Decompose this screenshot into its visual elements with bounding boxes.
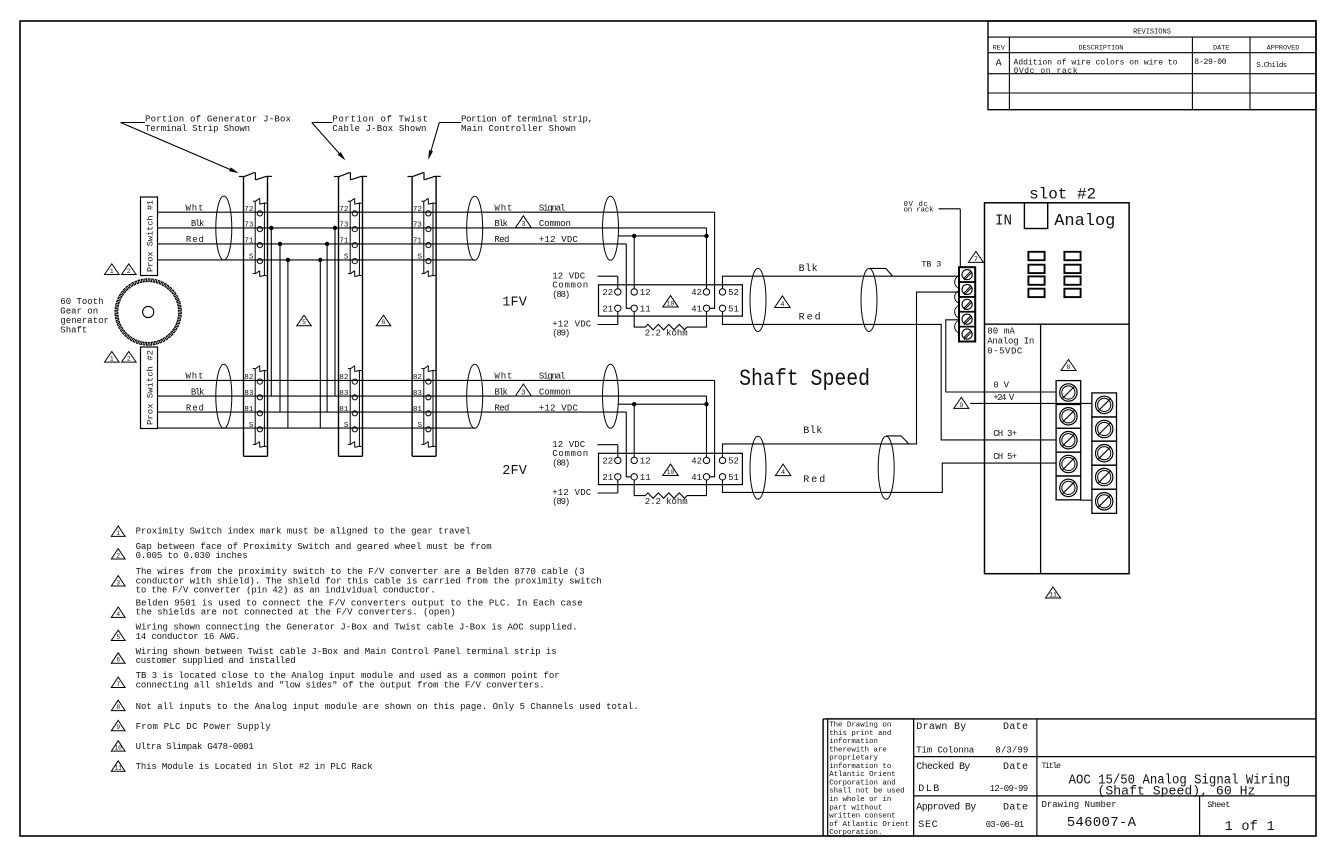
svg-text:14 conductor 16 AWG.: 14 conductor 16 AWG. bbox=[136, 632, 241, 642]
note triangle 5 bbox=[297, 315, 312, 326]
wire PS1 signal to 1FV pin 41 bbox=[710, 212, 715, 308]
output cable shield ellipse 1FV right bbox=[861, 269, 877, 332]
jumper between terminal columns bbox=[1081, 499, 1092, 501]
label: Portion of Generator J-Box Terminal Strip Shown bbox=[145, 115, 291, 134]
note triangle 4 at 2FV output bbox=[775, 464, 791, 477]
note 11 text bbox=[136, 762, 373, 772]
60 tooth gear symbol bbox=[115, 279, 181, 345]
wire 2FV pin 52 Blk output to TB3 terminal 2 bbox=[723, 292, 960, 457]
svg-text:connecting all shields and "lo: connecting all shields and "low sides" o… bbox=[136, 681, 545, 691]
note triangle 10 bbox=[111, 741, 125, 752]
title cell bbox=[1042, 762, 1291, 799]
shield drain 2FV to Blk wire bbox=[886, 436, 909, 444]
svg-text:2.2 kohm: 2.2 kohm bbox=[645, 497, 688, 507]
jumper Red generator side with junction bbox=[278, 242, 282, 412]
approved by cell bbox=[916, 802, 1028, 832]
F/V converter 1FV terminals bbox=[602, 288, 739, 314]
svg-text:41: 41 bbox=[691, 305, 702, 315]
svg-text:9: 9 bbox=[959, 402, 963, 409]
wire PS2 Blk common bbox=[158, 395, 707, 397]
svg-text:information to: information to bbox=[829, 763, 891, 771]
svg-text:S: S bbox=[344, 254, 349, 262]
svg-text:2: 2 bbox=[116, 552, 120, 559]
note triangle 7 bbox=[111, 677, 125, 688]
svg-text:4: 4 bbox=[781, 469, 785, 477]
svg-text:72: 72 bbox=[244, 206, 254, 214]
svg-text:82: 82 bbox=[244, 374, 254, 382]
svg-text:(88): (88) bbox=[552, 458, 570, 468]
label: Portion of terminal strip, Main Controller Shown bbox=[461, 115, 593, 134]
svg-text:Date: Date bbox=[1003, 762, 1028, 773]
svg-text:Prox Switch #1: Prox Switch #1 bbox=[146, 200, 156, 272]
svg-text:1 of 1: 1 of 1 bbox=[1225, 820, 1275, 835]
wire PS2 signal to 2FV pin 41 bbox=[710, 380, 715, 476]
svg-text:Signal: Signal bbox=[539, 203, 566, 213]
svg-text:5: 5 bbox=[302, 319, 306, 326]
svg-text:Blk: Blk bbox=[494, 387, 508, 397]
svg-text:CH 5+: CH 5+ bbox=[993, 452, 1017, 462]
note 9 text bbox=[136, 722, 272, 732]
svg-text:(89): (89) bbox=[552, 329, 570, 339]
wire PS1 Red +12VDC bbox=[158, 243, 627, 245]
svg-text:on rack: on rack bbox=[904, 207, 934, 215]
svg-text:generator: generator bbox=[60, 316, 109, 326]
svg-text:(Shaft Speed), 60 Hz: (Shaft Speed), 60 Hz bbox=[1098, 785, 1256, 799]
svg-text:Shaft Speed: Shaft Speed bbox=[739, 366, 870, 392]
svg-text:APPROVED: APPROVED bbox=[1267, 45, 1300, 53]
svg-text:to the F/V converter (pin 42): to the F/V converter (pin 42) as an indi… bbox=[136, 586, 436, 596]
svg-text:83: 83 bbox=[339, 390, 349, 398]
proprietary notice text bbox=[829, 722, 909, 838]
svg-text:Red: Red bbox=[186, 235, 204, 245]
svg-text:52: 52 bbox=[728, 288, 739, 298]
svg-text:82: 82 bbox=[413, 374, 423, 382]
terminal strip main controller terminal numbers and screws bbox=[413, 206, 431, 432]
svg-text:Checked By: Checked By bbox=[916, 761, 970, 773]
svg-text:Sheet: Sheet bbox=[1207, 800, 1230, 810]
svg-text:Blk: Blk bbox=[191, 219, 205, 229]
note triangle 11 bbox=[1046, 587, 1061, 598]
svg-text:Prox Switch #2: Prox Switch #2 bbox=[146, 350, 156, 425]
cable shield ellipse PS1 at terminal strip bbox=[467, 196, 483, 260]
resistor 2.2 kohm at 1FV output bbox=[634, 312, 706, 339]
note triangles 1 and 2 at PS1 bbox=[105, 264, 137, 275]
svg-text:Common: Common bbox=[539, 387, 571, 397]
svg-text:Tim Colonna: Tim Colonna bbox=[916, 745, 975, 755]
svg-text:of Atlantic Orient: of Atlantic Orient bbox=[829, 821, 909, 829]
wire TB3 terminal 4 to module 0 V bbox=[946, 320, 1056, 392]
svg-text:Wht: Wht bbox=[494, 372, 512, 382]
cable shield ellipse PS1 at J-box bbox=[216, 196, 232, 260]
svg-text:11: 11 bbox=[640, 473, 651, 483]
terminal strip main controller outline with break symbols bbox=[408, 172, 441, 456]
svg-text:Analog In: Analog In bbox=[987, 336, 1034, 346]
label +12 VDC (89) at 1FV bbox=[552, 312, 618, 339]
leader arrow to twist cable J-box strip bbox=[312, 123, 346, 161]
svg-text:Blk: Blk bbox=[494, 219, 508, 229]
svg-text:This Module is Located in Slot: This Module is Located in Slot #2 in PLC… bbox=[136, 762, 373, 772]
wire +24 V to module terminal bbox=[970, 402, 1092, 404]
svg-text:Wht: Wht bbox=[186, 372, 204, 382]
svg-text:REVISIONS: REVISIONS bbox=[1133, 29, 1171, 37]
svg-text:Red: Red bbox=[186, 403, 204, 413]
note triangle 2 bbox=[111, 549, 125, 560]
svg-text:S.Childs: S.Childs bbox=[1256, 62, 1287, 70]
note 6 text bbox=[136, 647, 557, 666]
wire PS2 Wht signal bbox=[158, 379, 715, 381]
note 8 text bbox=[136, 702, 639, 712]
svg-text:2.2 kohm: 2.2 kohm bbox=[645, 328, 688, 338]
svg-text:72: 72 bbox=[339, 206, 349, 214]
svg-text:part without: part without bbox=[829, 804, 882, 812]
svg-text:S: S bbox=[344, 422, 349, 430]
jumper shield generator side with junction bbox=[286, 258, 290, 428]
terminal strip generator J-box terminal numbers and screws bbox=[244, 206, 262, 432]
svg-text:Analog: Analog bbox=[1054, 212, 1115, 231]
svg-text:Blk: Blk bbox=[191, 387, 205, 397]
jumper Blk twist-cable side with junction bbox=[333, 226, 337, 396]
svg-text:0-5VDC: 0-5VDC bbox=[987, 346, 1023, 356]
svg-text:IN: IN bbox=[995, 213, 1012, 230]
svg-text:Drawn By: Drawn By bbox=[916, 722, 966, 733]
F/V converter 1FV box bbox=[599, 285, 743, 316]
note triangle 10 inside 2FV bbox=[663, 464, 679, 476]
svg-text:82: 82 bbox=[339, 374, 349, 382]
label 12 VDC Common (88) at 2FV bbox=[552, 440, 618, 468]
svg-text:71: 71 bbox=[339, 238, 349, 246]
svg-text:22: 22 bbox=[602, 288, 613, 298]
svg-text:the shields are not connected: the shields are not connected at the F/V… bbox=[136, 608, 456, 618]
svg-text:11: 11 bbox=[640, 305, 651, 315]
svg-text:proprietary: proprietary bbox=[829, 755, 878, 763]
svg-text:22: 22 bbox=[602, 457, 613, 467]
note triangle 4 bbox=[111, 607, 125, 618]
svg-text:Corporation.: Corporation. bbox=[829, 829, 882, 837]
note triangle 11 bbox=[111, 761, 125, 772]
svg-text:11: 11 bbox=[114, 765, 122, 772]
PS1 signal name labels with note triangle 3 bbox=[494, 203, 578, 245]
svg-text:Drawing Number: Drawing Number bbox=[1042, 800, 1117, 810]
note triangle 4 at 1FV output bbox=[775, 296, 791, 309]
svg-text:10: 10 bbox=[667, 469, 675, 476]
svg-text:42: 42 bbox=[691, 457, 702, 467]
svg-text:0.005 to 0.030 inches: 0.005 to 0.030 inches bbox=[136, 551, 248, 561]
svg-text:8-29-00: 8-29-00 bbox=[1194, 58, 1226, 67]
svg-text:Signal: Signal bbox=[539, 372, 566, 382]
resistor 2.2 kohm at 2FV output bbox=[634, 480, 706, 507]
drawing number cell bbox=[1042, 800, 1137, 831]
wire PS1 common to 1FV pin 42 bbox=[706, 228, 708, 289]
note triangle 8 bbox=[1061, 360, 1076, 371]
svg-text:10: 10 bbox=[667, 300, 675, 307]
svg-text:A: A bbox=[996, 59, 1002, 70]
note triangle 9 bbox=[111, 720, 125, 731]
module key window bbox=[1024, 203, 1047, 229]
cable shield ellipse PS2 at terminal strip bbox=[467, 364, 483, 428]
svg-text:S: S bbox=[249, 254, 254, 262]
svg-text:81: 81 bbox=[413, 406, 423, 414]
label 12 VDC Common (88) at 1FV bbox=[552, 272, 618, 300]
svg-text:Gear on: Gear on bbox=[60, 307, 98, 317]
svg-text:Blk: Blk bbox=[803, 425, 822, 437]
svg-text:Atlantic Orient: Atlantic Orient bbox=[829, 771, 896, 779]
svg-text:in whole or in: in whole or in bbox=[829, 796, 891, 804]
svg-text:information: information bbox=[829, 738, 878, 746]
PS1 wire color labels bbox=[186, 203, 205, 245]
svg-text:Approved By: Approved By bbox=[916, 802, 976, 814]
svg-text:Proximity Switch index mark mu: Proximity Switch index mark must be alig… bbox=[136, 527, 471, 537]
svg-text:SEC: SEC bbox=[918, 820, 937, 831]
note 2 text bbox=[136, 542, 492, 561]
cable shield ellipse PS1 at F/V converter bbox=[603, 196, 619, 260]
shield drain 1FV to Blk wire bbox=[869, 268, 893, 276]
F/V converter 2FV box bbox=[599, 453, 743, 484]
svg-text:72: 72 bbox=[413, 206, 423, 214]
wire PS2 Red +12VDC bbox=[158, 411, 627, 413]
svg-text:Ultra Slimpak G478-0001: Ultra Slimpak G478-0001 bbox=[136, 742, 254, 752]
leader arrow to main controller terminal strip bbox=[428, 123, 461, 160]
svg-text:83: 83 bbox=[413, 390, 423, 398]
wire PS2 common to 2FV pin 42 bbox=[706, 396, 708, 457]
svg-text:03-06-01: 03-06-01 bbox=[986, 820, 1024, 830]
shield jumper to 2FV pin 12 with junctions bbox=[619, 402, 709, 457]
svg-text:0 V: 0 V bbox=[993, 380, 1009, 390]
svg-text:Red: Red bbox=[799, 311, 821, 323]
note triangle 3 bbox=[111, 576, 125, 587]
svg-text:Red: Red bbox=[494, 235, 509, 245]
note triangle 9 bbox=[954, 397, 969, 408]
cable shield ellipse PS2 at J-box bbox=[216, 364, 232, 428]
svg-text:shall not be used: shall not be used bbox=[829, 788, 904, 796]
svg-text:S: S bbox=[249, 422, 254, 430]
svg-text:2: 2 bbox=[127, 356, 131, 363]
svg-text:52: 52 bbox=[728, 457, 739, 467]
svg-text:73: 73 bbox=[339, 222, 349, 230]
wire PS1 +12VDC to 1FV pin 11 bbox=[626, 244, 631, 308]
wire 2FV pin 51 Red output to module CH 5+ bbox=[723, 463, 1057, 492]
svg-text:DESCRIPTION: DESCRIPTION bbox=[1078, 45, 1123, 53]
svg-text:Main Controller Shown: Main Controller Shown bbox=[461, 124, 576, 134]
wire 1FV pin 51 Red output to module CH 3+ bbox=[723, 312, 1057, 440]
F/V converter 2FV terminals bbox=[602, 457, 739, 483]
PS2 wire color labels bbox=[186, 372, 205, 414]
analog input module outline slot #2 bbox=[985, 203, 1130, 574]
svg-text:Corporation and: Corporation and bbox=[829, 779, 896, 787]
jumper shield twist-cable side with junction bbox=[318, 258, 322, 428]
output cable shield ellipse 1FV left bbox=[750, 269, 766, 332]
note triangle 1 bbox=[111, 526, 125, 537]
svg-text:7: 7 bbox=[116, 681, 120, 688]
svg-text:2: 2 bbox=[127, 268, 131, 275]
svg-text:Common: Common bbox=[539, 219, 571, 229]
svg-text:From PLC DC Power Supply: From PLC DC Power Supply bbox=[136, 722, 272, 732]
module LED indicators bbox=[1028, 252, 1080, 297]
wire PS2 +12VDC to 2FV pin 11 bbox=[626, 412, 631, 477]
svg-text:Date: Date bbox=[1003, 803, 1028, 814]
note triangle 6 bbox=[376, 315, 391, 326]
svg-text:Not all inputs to the Analog i: Not all inputs to the Analog input modul… bbox=[136, 702, 639, 712]
wire PS1 shield bbox=[158, 259, 475, 261]
svg-text:4: 4 bbox=[116, 611, 120, 618]
svg-text:80 mA: 80 mA bbox=[987, 327, 1015, 337]
svg-text:83: 83 bbox=[244, 390, 254, 398]
note triangle 10 inside 1FV bbox=[663, 296, 679, 308]
svg-text:(88): (88) bbox=[552, 290, 570, 300]
svg-text:1: 1 bbox=[110, 268, 114, 275]
checked by cell bbox=[916, 761, 1028, 795]
svg-text:5: 5 bbox=[116, 634, 120, 641]
note 5 text bbox=[136, 623, 578, 642]
svg-text:42: 42 bbox=[691, 288, 702, 298]
wire PS1 Blk common bbox=[158, 227, 707, 229]
svg-text:4: 4 bbox=[780, 301, 784, 309]
revisions table bbox=[988, 21, 1316, 110]
cable shield ellipse PS2 at F/V converter bbox=[603, 364, 619, 428]
svg-text:customer supplied and installe: customer supplied and installed bbox=[136, 656, 296, 666]
wire PS2 shield bbox=[158, 427, 475, 429]
svg-text:12: 12 bbox=[640, 288, 651, 298]
svg-text:REV: REV bbox=[993, 45, 1006, 53]
svg-text:51: 51 bbox=[728, 305, 739, 315]
svg-text:CH 3+: CH 3+ bbox=[993, 429, 1017, 439]
svg-text:Title: Title bbox=[1042, 762, 1062, 771]
svg-text:Red: Red bbox=[494, 403, 509, 413]
label +12 VDC (89) at 2FV bbox=[552, 480, 618, 507]
svg-text:73: 73 bbox=[413, 222, 423, 230]
svg-text:Cable J-Box Shown: Cable J-Box Shown bbox=[332, 124, 426, 134]
svg-text:Date: Date bbox=[1003, 722, 1028, 733]
svg-text:73: 73 bbox=[244, 222, 254, 230]
module terminal column right bbox=[1092, 393, 1117, 513]
svg-text:(89): (89) bbox=[552, 497, 570, 507]
note triangle 5 bbox=[111, 630, 125, 641]
note 7 text bbox=[136, 671, 560, 690]
output cable shield ellipse 2FV left bbox=[750, 436, 766, 499]
svg-text:21: 21 bbox=[602, 305, 613, 315]
svg-text:71: 71 bbox=[244, 238, 254, 246]
terminal strip twist cable J-box outline with break symbols bbox=[334, 172, 367, 456]
svg-text:81: 81 bbox=[244, 406, 254, 414]
svg-text:Shaft: Shaft bbox=[60, 326, 87, 336]
jumper Blk generator side with junction bbox=[269, 226, 273, 396]
svg-text:8: 8 bbox=[116, 704, 120, 711]
wire 1FV pin 52 Blk output to TB3 terminal 1 bbox=[723, 276, 960, 289]
note 10 text bbox=[136, 742, 254, 752]
svg-text:S: S bbox=[417, 422, 422, 430]
note 4 text bbox=[136, 598, 583, 617]
svg-text:8/3/99: 8/3/99 bbox=[995, 745, 1028, 755]
proximity switch PS2 box bbox=[141, 347, 158, 429]
svg-text:3: 3 bbox=[116, 579, 120, 586]
sheet cell bbox=[1207, 800, 1274, 835]
jumper Red twist-cable side with junction bbox=[325, 242, 329, 412]
module terminal column left bbox=[1056, 381, 1081, 500]
label: Portion of Twist Cable J-Box Shown bbox=[332, 115, 428, 134]
svg-text:12: 12 bbox=[640, 457, 651, 467]
svg-text:41: 41 bbox=[691, 473, 702, 483]
gear label text bbox=[60, 297, 109, 336]
svg-text:3: 3 bbox=[521, 389, 525, 397]
note 3 text bbox=[136, 567, 602, 596]
terminal block TB 3 bbox=[955, 267, 976, 341]
title block bbox=[823, 719, 1316, 836]
note triangle 7 bbox=[968, 251, 983, 262]
svg-text:this print and: this print and bbox=[829, 730, 891, 738]
svg-text:60 Tooth: 60 Tooth bbox=[60, 297, 103, 307]
svg-text:12-09-99: 12-09-99 bbox=[990, 784, 1029, 794]
svg-text:DLB: DLB bbox=[918, 784, 939, 795]
svg-text:6: 6 bbox=[116, 657, 120, 664]
svg-text:2FV: 2FV bbox=[502, 464, 527, 479]
PS2 signal name labels with note triangle 3 bbox=[494, 372, 578, 414]
svg-text:+12 VDC: +12 VDC bbox=[539, 235, 579, 245]
terminal strip generator J-box outline with break symbols bbox=[239, 172, 272, 456]
proximity switch PS1 box bbox=[141, 197, 158, 276]
svg-text:81: 81 bbox=[339, 406, 349, 414]
note triangle 8 bbox=[111, 700, 125, 711]
terminal strip twist cable J-box terminal numbers and screws bbox=[339, 206, 357, 432]
output cable shield ellipse 2FV right bbox=[878, 436, 894, 499]
svg-text:71: 71 bbox=[413, 238, 423, 246]
svg-text:+24 V: +24 V bbox=[993, 393, 1015, 403]
svg-text:10: 10 bbox=[114, 745, 122, 752]
svg-text:546007-A: 546007-A bbox=[1067, 815, 1137, 831]
svg-text:therewith are: therewith are bbox=[829, 746, 887, 754]
note triangles 1 and 2 at PS2 bbox=[105, 352, 137, 363]
svg-text:1: 1 bbox=[116, 530, 120, 537]
note 1 text bbox=[136, 527, 471, 537]
svg-text:S: S bbox=[417, 254, 422, 262]
svg-text:written consent: written consent bbox=[829, 813, 896, 821]
wire PS1 Wht signal bbox=[158, 211, 715, 213]
svg-text:21: 21 bbox=[602, 473, 613, 483]
svg-text:51: 51 bbox=[728, 473, 739, 483]
svg-text:11: 11 bbox=[1049, 591, 1057, 598]
svg-text:TB 3: TB 3 bbox=[921, 259, 941, 269]
svg-text:Red: Red bbox=[803, 474, 825, 486]
svg-text:Wht: Wht bbox=[186, 203, 204, 213]
svg-text:1FV: 1FV bbox=[502, 295, 527, 310]
svg-text:Wht: Wht bbox=[494, 203, 512, 213]
svg-text:0Vdc on rack: 0Vdc on rack bbox=[1014, 67, 1078, 76]
svg-text:9: 9 bbox=[116, 724, 120, 731]
note triangle 6 bbox=[111, 653, 125, 664]
svg-text:slot #2: slot #2 bbox=[1029, 186, 1096, 204]
drawn by cell bbox=[916, 722, 1028, 755]
shield jumper to 1FV pin 12 with junctions bbox=[619, 234, 709, 289]
svg-text:+12 VDC: +12 VDC bbox=[539, 403, 579, 413]
svg-text:8: 8 bbox=[1067, 364, 1071, 371]
svg-text:3: 3 bbox=[521, 221, 525, 229]
svg-text:DATE: DATE bbox=[1213, 45, 1229, 53]
wire 0V dc on rack to TB3 top bbox=[939, 209, 961, 267]
svg-text:Blk: Blk bbox=[799, 263, 818, 275]
label 80 mA Analog In 0-5VDC bbox=[987, 327, 1034, 357]
svg-text:6: 6 bbox=[382, 319, 386, 326]
label 0V dc on rack bbox=[904, 201, 934, 214]
svg-text:The Drawing on: The Drawing on bbox=[829, 722, 891, 730]
leader arrow to generator J-box strip bbox=[121, 123, 239, 174]
svg-text:1: 1 bbox=[110, 356, 114, 363]
svg-text:Terminal Strip Shown: Terminal Strip Shown bbox=[145, 124, 250, 134]
svg-text:7: 7 bbox=[974, 256, 978, 263]
